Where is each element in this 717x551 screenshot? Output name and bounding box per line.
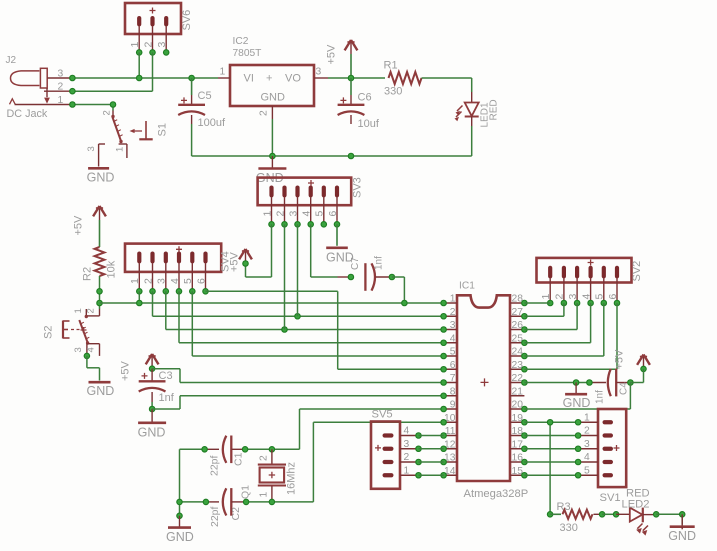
svg-text:GND: GND	[166, 530, 194, 544]
svg-text:GND: GND	[563, 396, 591, 410]
svg-text:3: 3	[287, 211, 299, 217]
node: SV4 pin dots	[137, 289, 209, 295]
node: IC1 right pin dots	[522, 300, 528, 478]
svg-text:1: 1	[129, 42, 141, 48]
svg-text:SV2: SV2	[631, 261, 643, 282]
svg-text:1: 1	[220, 67, 226, 78]
svg-text:IC2: IC2	[233, 36, 249, 47]
node C4 pin dots	[587, 380, 634, 386]
svg-text:1nf: 1nf	[374, 256, 385, 270]
svg-text:4: 4	[450, 333, 456, 344]
connector SV1	[578, 409, 626, 504]
node +5V pin	[243, 261, 249, 267]
wire net R1 to LED1	[422, 78, 472, 92]
svg-text:3: 3	[567, 294, 579, 300]
wire net IC1.5	[192, 291, 443, 356]
capacitor C6 10uf	[338, 78, 380, 130]
svg-text:3: 3	[86, 146, 97, 151]
svg-text:5: 5	[594, 294, 606, 300]
svg-text:R2: R2	[82, 267, 94, 281]
supply +5V (regulator output)	[326, 40, 358, 78]
wire net +5V to IC1.7	[152, 369, 444, 383]
svg-text:1: 1	[115, 147, 126, 152]
junction C3/GND/IC1.8	[149, 406, 155, 412]
svg-text:2: 2	[274, 211, 286, 217]
supply +5V (R2)	[73, 206, 106, 247]
connector J2 DC Jack	[6, 55, 73, 120]
svg-text:21: 21	[512, 386, 524, 397]
junction J2.1/S1	[110, 102, 116, 108]
svg-text:330: 330	[560, 522, 578, 534]
svg-text:+5V: +5V	[614, 349, 626, 370]
wire net GND to IC1.8	[152, 396, 444, 409]
connector SV3	[258, 177, 364, 224]
node GND pin dot (LED2)	[679, 512, 685, 518]
junction C5/VIN	[189, 75, 195, 81]
svg-text:SV6: SV6	[181, 10, 193, 31]
svg-text:6: 6	[327, 211, 339, 217]
svg-text:1nf: 1nf	[159, 392, 175, 404]
ground GND (C1/C2)	[166, 516, 194, 544]
node LED2 anode dot	[613, 512, 619, 518]
wire net GND rail under IC2	[192, 119, 472, 156]
node: SV6 pin dots	[136, 50, 169, 56]
svg-text:1: 1	[261, 211, 273, 217]
svg-text:3: 3	[450, 320, 456, 331]
svg-text:8: 8	[450, 386, 456, 397]
svg-text:2: 2	[554, 294, 566, 300]
junction Q1.2/net9	[269, 447, 275, 453]
svg-text:22pf: 22pf	[209, 506, 221, 527]
wire net +5V/C4/IC1.20	[524, 369, 643, 409]
resistor R3 330	[550, 501, 602, 534]
ground GND (IC1.22/C4)	[563, 383, 591, 411]
wire net XTAL1 (C1/Q1.2)	[180, 448, 300, 450]
node: SV3 pin dots	[269, 222, 340, 228]
wire nets IC1.28-23 to SV2.1-6	[524, 303, 617, 369]
junction bus/R3	[547, 512, 553, 518]
svg-text:IC1: IC1	[459, 281, 475, 292]
svg-text:2: 2	[102, 110, 113, 115]
wire net +5V from IC2.VO	[328, 77, 385, 79]
svg-text:VO: VO	[285, 73, 301, 85]
node: SV2 pin dots	[547, 300, 619, 306]
svg-text:6: 6	[195, 278, 207, 284]
svg-text:6: 6	[607, 294, 619, 300]
svg-text:+5V: +5V	[326, 44, 338, 65]
capacitor C5 100uf	[178, 78, 226, 129]
node C7 pin dots	[348, 274, 395, 280]
svg-text:4: 4	[404, 426, 410, 437]
resistor R1 330	[384, 60, 422, 98]
svg-text:C3: C3	[159, 370, 173, 382]
svg-text:+5V: +5V	[229, 251, 241, 272]
svg-text:+5V: +5V	[73, 215, 85, 236]
svg-text:1: 1	[259, 492, 270, 498]
svg-text:3: 3	[404, 439, 410, 450]
switch S2	[43, 308, 100, 356]
svg-text:C6: C6	[358, 92, 372, 104]
supply +5V (SV3.1)	[239, 249, 252, 264]
svg-text:2: 2	[259, 455, 270, 461]
svg-text:GND: GND	[261, 92, 286, 104]
svg-text:VI: VI	[244, 73, 254, 85]
connector SV2	[537, 258, 644, 303]
svg-text:100uf: 100uf	[198, 117, 226, 129]
ground GND (S2)	[87, 382, 115, 398]
svg-text:4: 4	[580, 294, 592, 300]
svg-text:2: 2	[86, 308, 97, 313]
svg-text:LED2: LED2	[622, 499, 650, 511]
svg-text:1nf: 1nf	[595, 390, 606, 404]
junction SV6.1/VIN	[136, 75, 142, 81]
wire net J2.2 to SV6.2	[72, 52, 152, 91]
svg-text:GND: GND	[138, 425, 166, 439]
node: J2 pin dots	[70, 75, 76, 107]
node LED2 cathode dot	[653, 512, 659, 518]
svg-text:5: 5	[182, 278, 194, 284]
svg-text:Q1: Q1	[240, 485, 252, 499]
svg-text:5: 5	[314, 211, 326, 217]
ground GND (LED2)	[668, 514, 696, 543]
wire bus net19 to R3	[549, 422, 551, 514]
svg-text:1: 1	[58, 95, 64, 106]
svg-text:3: 3	[156, 278, 168, 284]
wire SV3.2 drop	[284, 224, 286, 329]
connector SV6	[125, 3, 193, 52]
wire SV3.3 drop	[297, 224, 299, 316]
svg-text:1: 1	[404, 465, 410, 476]
supply +5V (C3 / IC1 VCC)	[120, 354, 159, 381]
node: SV1 pin dots	[575, 420, 581, 479]
wire net +5V to SV3.1	[246, 224, 272, 277]
svg-text:J2: J2	[6, 55, 17, 66]
svg-text:22pf: 22pf	[209, 455, 221, 476]
wire net IC1.2	[153, 291, 444, 316]
svg-text:4: 4	[301, 211, 313, 217]
svg-text:3: 3	[73, 347, 84, 352]
wire nets IC1.19-15 to SV1.1-5	[524, 422, 578, 475]
node R3 pin dot	[599, 512, 605, 518]
svg-text:C2: C2	[230, 507, 242, 521]
svg-text:9: 9	[450, 400, 456, 411]
svg-text:S2: S2	[43, 326, 55, 339]
LED LED1 RED	[455, 92, 500, 128]
svg-text:+5V: +5V	[120, 360, 132, 381]
wire net AGND (IC1.22)	[524, 382, 589, 384]
voltage regulator IC2 7805T	[218, 36, 328, 119]
svg-text:2: 2	[450, 307, 456, 318]
resistor R2 10k	[82, 247, 118, 281]
junction +5V/R1/C6	[348, 75, 354, 81]
junction GND drop	[573, 380, 579, 386]
node +5V/C3 junction	[149, 366, 155, 372]
connector SV5	[371, 409, 419, 489]
ground GND (IC2)	[256, 156, 287, 185]
svg-text:S1: S1	[157, 123, 169, 136]
svg-text:RED: RED	[489, 99, 500, 120]
svg-text:2: 2	[259, 110, 270, 116]
svg-text:2: 2	[58, 82, 64, 93]
svg-text:1: 1	[584, 412, 590, 423]
junction SV3.3/net2	[295, 314, 301, 320]
capacitor C1 22pf	[205, 436, 246, 477]
switch S1	[86, 110, 169, 166]
svg-text:6: 6	[450, 360, 456, 371]
svg-text:R1: R1	[384, 60, 398, 72]
supply +5V (AVCC)	[614, 349, 650, 370]
capacitor C2 22pf	[206, 488, 246, 527]
wire nets SV5 to IC1.11-14	[419, 436, 444, 476]
wire net IC1.4	[179, 291, 444, 342]
svg-text:1: 1	[73, 308, 84, 313]
svg-text:C7: C7	[350, 257, 361, 270]
wire net IC1.3	[166, 291, 444, 329]
svg-text:3: 3	[156, 42, 168, 48]
svg-text:SV3: SV3	[352, 177, 364, 198]
svg-text:330: 330	[384, 86, 402, 98]
crystal Q1 16Mhz	[240, 449, 298, 502]
ground GND (C3)	[138, 409, 167, 439]
svg-text:+: +	[266, 73, 272, 85]
wire net crystal GND leg	[179, 449, 181, 516]
svg-text:3: 3	[584, 439, 590, 450]
junction R2/S2/net1	[97, 300, 103, 306]
wire net J2.1 to S1.2	[72, 105, 113, 111]
wire S2.3 to GND	[87, 356, 100, 381]
wire net IC1.1 (reset)	[100, 291, 444, 303]
node: SV5 pin dots	[416, 433, 422, 478]
svg-text:3: 3	[316, 67, 322, 78]
capacitor C4 1nf	[589, 369, 630, 404]
junction IC2.GND/rail	[270, 153, 276, 159]
wire net XTAL2 IC1.10	[313, 422, 443, 502]
svg-text:2: 2	[404, 452, 410, 463]
wire R2 to S2/IC1.1	[99, 276, 101, 309]
svg-text:1: 1	[540, 294, 552, 300]
node: IC1 left pin dots	[441, 300, 447, 478]
wire net XTAL2 (C2/Q1.1)	[180, 501, 314, 503]
svg-text:2: 2	[142, 42, 154, 48]
wire C3 bottom	[151, 402, 153, 409]
svg-text:5: 5	[584, 465, 590, 476]
node +5V pin dot	[641, 366, 647, 372]
node S2.3 pin dot	[84, 353, 90, 359]
wire SV3.4 to C7	[311, 224, 338, 277]
svg-text:R3: R3	[557, 501, 571, 513]
svg-text:7: 7	[450, 373, 456, 384]
junction SV3.2/net3	[282, 327, 288, 333]
svg-text:SV5: SV5	[372, 409, 393, 421]
svg-text:4: 4	[169, 278, 181, 284]
ground GND (S1.3)	[87, 168, 115, 184]
wire net VIN (J2.3 / SV6.1 / C5 / IC2.VI)	[72, 52, 218, 78]
junction Q1.1/net10	[269, 499, 275, 505]
wire net XTAL1 IC1.9	[300, 409, 444, 449]
junction SV4.1/net1	[137, 300, 143, 306]
svg-text:Atmega328P: Atmega328P	[464, 488, 529, 500]
LED LED2 RED	[616, 488, 656, 536]
svg-text:GND: GND	[668, 529, 696, 543]
wire LED1 cathode to GND rail	[471, 126, 473, 156]
svg-text:C5: C5	[198, 90, 212, 102]
svg-text:DC Jack: DC Jack	[7, 108, 48, 120]
svg-text:SV1: SV1	[600, 492, 621, 504]
svg-text:5: 5	[450, 347, 456, 358]
svg-text:16Mhz: 16Mhz	[286, 462, 298, 495]
ground GND (SV3.6)	[326, 224, 354, 264]
svg-text:2: 2	[142, 278, 154, 284]
IC U1 Atmega328P (IC1)	[444, 281, 529, 501]
wire LED2 to GND	[656, 514, 682, 524]
svg-text:10uf: 10uf	[358, 118, 380, 130]
svg-text:GND: GND	[87, 384, 115, 398]
junction net19/bus	[547, 420, 553, 426]
wire C7 to IC1 pin1 net	[392, 277, 405, 303]
wire R3 to LED2	[602, 513, 616, 515]
wire net IC1.6	[206, 291, 444, 369]
node C2 pin dots	[203, 499, 249, 505]
svg-text:4: 4	[584, 452, 590, 463]
svg-text:1: 1	[129, 278, 141, 284]
junction C2/GND leg	[177, 499, 183, 505]
svg-text:10k: 10k	[106, 260, 118, 278]
junction C7/net1	[402, 300, 408, 306]
capacitor C3 1nf	[139, 369, 175, 404]
svg-text:GND: GND	[87, 171, 115, 185]
junction C6/rail	[348, 153, 354, 159]
capacitor C7 1nf	[338, 256, 392, 291]
svg-text:2: 2	[584, 426, 590, 437]
node R2 pin dot	[97, 289, 103, 295]
svg-text:1: 1	[450, 294, 456, 305]
svg-text:C1: C1	[233, 452, 245, 466]
node C1 pin dots	[202, 447, 248, 453]
connector SV4	[125, 244, 241, 292]
svg-text:3: 3	[58, 69, 64, 80]
svg-text:4: 4	[86, 347, 97, 352]
node GND pin dot	[177, 513, 183, 519]
svg-text:7805T: 7805T	[233, 48, 262, 59]
